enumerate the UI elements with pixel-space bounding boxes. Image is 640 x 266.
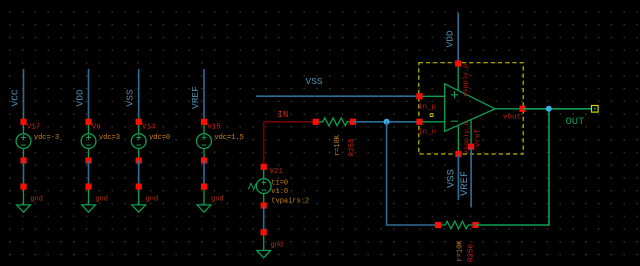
svg-text:IN: IN <box>278 110 289 120</box>
junction dot OUT <box>546 106 552 112</box>
wire net VDD (to op-amp) <box>457 13 459 64</box>
svg-text:vdc=0: vdc=0 <box>149 134 170 142</box>
wire net IN <box>264 122 316 167</box>
wire net VSS (horizontal to in_p) <box>256 95 420 97</box>
wire net VDD (vertical) <box>88 69 90 122</box>
svg-text:VSS: VSS <box>125 89 136 106</box>
resistor R255 <box>316 118 353 126</box>
svg-text:gnd: gnd <box>271 241 284 249</box>
junction dot <box>384 119 390 125</box>
wire net VREF (vertical) <box>203 69 205 122</box>
svg-text:vout: vout <box>503 114 521 122</box>
ground symbol <box>82 187 96 213</box>
pin vout <box>519 106 525 112</box>
origin marker <box>430 114 433 117</box>
svg-text:V14: V14 <box>142 123 156 131</box>
pulse source V21 <box>256 167 271 206</box>
svg-text:V15: V15 <box>207 123 221 131</box>
pin vref <box>468 144 474 150</box>
svg-text:VDD: VDD <box>444 30 455 47</box>
svg-text:tvpairs:2: tvpairs:2 <box>271 198 309 206</box>
pin in_p <box>416 93 422 99</box>
svg-text:OUT: OUT <box>566 116 585 128</box>
op-amp U1 selection box (dashed) <box>419 63 523 154</box>
ground symbol <box>17 187 31 213</box>
resistor R256 <box>438 221 476 229</box>
ground symbol <box>257 232 271 258</box>
wire V21 to gnd <box>263 206 265 233</box>
svg-text:in_p: in_p <box>418 103 436 111</box>
wire junction down to feedback <box>387 122 438 225</box>
svg-text:vspply_p: vspply_p <box>462 64 470 97</box>
output pin OUT (yellow) <box>592 106 599 113</box>
pin vspply_p <box>455 60 461 66</box>
voltage source V15 <box>197 122 212 161</box>
svg-text:gnd: gnd <box>146 196 159 204</box>
svg-text:V6: V6 <box>92 123 102 131</box>
wire net VSS (vertical) <box>138 69 140 122</box>
svg-text:gnd: gnd <box>95 196 108 204</box>
svg-text:r=10K: r=10K <box>334 134 342 156</box>
wire net VSS (below op-amp) <box>457 154 459 200</box>
wire V17 to gnd <box>23 161 25 187</box>
ground symbol <box>132 187 146 213</box>
svg-text:VSS: VSS <box>306 76 323 87</box>
svg-text:V17: V17 <box>27 123 41 131</box>
svg-text:VREF: VREF <box>459 171 471 196</box>
wire R255 to in_n <box>353 121 420 123</box>
svg-text:gnd: gnd <box>30 196 43 204</box>
wire net OUT <box>523 108 595 110</box>
svg-text:in_n: in_n <box>418 129 436 137</box>
svg-text:vdc=3: vdc=3 <box>99 134 120 142</box>
wire V15 to gnd <box>203 161 205 187</box>
svg-text:r=10K: r=10K <box>457 240 465 262</box>
voltage source V14 <box>131 122 146 161</box>
op-amp U1 triangle <box>420 64 523 155</box>
wire net VREF (below op-amp) <box>470 147 472 208</box>
wire V6 to gnd <box>88 161 90 187</box>
pulse squiggle <box>248 183 256 189</box>
svg-text:v1:0: v1:0 <box>271 188 288 196</box>
svg-text:VCC: VCC <box>10 89 21 106</box>
svg-text:R256: R256 <box>468 243 476 262</box>
svg-text:VREF: VREF <box>190 86 201 109</box>
svg-text:V21: V21 <box>270 168 284 176</box>
svg-text:vref: vref <box>475 128 483 147</box>
pin vspply_n <box>455 151 461 157</box>
wire feedback OUT net (green) <box>476 109 550 225</box>
svg-text:R255: R255 <box>349 138 357 157</box>
pin in_n <box>416 119 422 125</box>
wire V14 to gnd <box>138 161 140 187</box>
voltage source V17 <box>16 122 31 161</box>
svg-text:t1=0: t1=0 <box>271 180 288 188</box>
voltage source V6 <box>81 122 96 161</box>
svg-text:vdc=-3: vdc=-3 <box>34 134 59 142</box>
svg-text:vdc=1.5: vdc=1.5 <box>214 134 243 142</box>
svg-text:VDD: VDD <box>75 89 86 106</box>
svg-text:gnd: gnd <box>211 196 224 204</box>
wire net VCC (vertical) <box>23 69 25 122</box>
svg-text:VSS: VSS <box>446 169 458 188</box>
ground symbol <box>197 187 211 213</box>
